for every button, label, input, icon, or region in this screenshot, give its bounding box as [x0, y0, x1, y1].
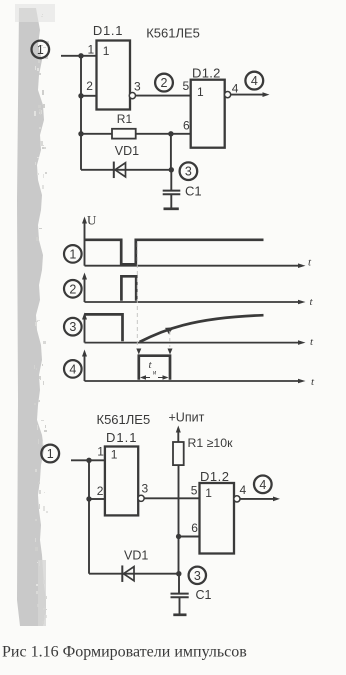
svg-text:1: 1: [197, 85, 204, 99]
svg-text:4: 4: [240, 483, 247, 497]
svg-text:3: 3: [194, 569, 201, 583]
svg-text:t: t: [311, 376, 315, 388]
svg-text:VD1: VD1: [124, 549, 148, 563]
svg-text:D1.1: D1.1: [93, 23, 123, 38]
svg-text:D1.2: D1.2: [200, 469, 229, 484]
svg-text:3: 3: [142, 482, 149, 496]
svg-text:D1.1: D1.1: [106, 430, 137, 445]
svg-text:Рис 1.16 Формирователи импульс: Рис 1.16 Формирователи импульсов: [2, 644, 247, 661]
svg-text:1: 1: [111, 447, 118, 461]
svg-text:6: 6: [183, 118, 190, 132]
svg-text:2: 2: [69, 282, 76, 296]
svg-text:4: 4: [259, 478, 266, 492]
svg-text:5: 5: [183, 79, 190, 93]
svg-text:t: t: [149, 359, 153, 371]
svg-text:2: 2: [161, 76, 168, 90]
svg-text:К561ЛЕ5: К561ЛЕ5: [97, 412, 151, 427]
svg-text:3: 3: [134, 80, 141, 94]
svg-text:C1: C1: [185, 184, 202, 199]
svg-text:5: 5: [191, 483, 198, 497]
svg-text:D1.2: D1.2: [192, 66, 221, 81]
svg-text:1: 1: [103, 44, 110, 58]
svg-text:1: 1: [97, 444, 104, 458]
svg-text:R1: R1: [117, 112, 133, 126]
svg-text:3: 3: [69, 320, 76, 334]
svg-text:2: 2: [86, 79, 93, 93]
svg-text:U: U: [87, 213, 97, 228]
svg-text:3: 3: [185, 165, 192, 179]
svg-text:1: 1: [69, 247, 76, 261]
svg-text:4: 4: [69, 362, 76, 376]
svg-text:1: 1: [205, 486, 212, 500]
svg-text:1: 1: [37, 43, 44, 57]
svg-text:C1: C1: [196, 588, 212, 602]
svg-text:t: t: [308, 257, 312, 269]
svg-text:4: 4: [232, 81, 239, 95]
svg-text:VD1: VD1: [115, 144, 139, 158]
svg-text:t: t: [310, 296, 314, 308]
svg-text:+Uпит: +Uпит: [169, 411, 205, 425]
svg-text:6: 6: [191, 521, 198, 535]
svg-text:R1 ≥10к: R1 ≥10к: [188, 436, 234, 450]
svg-text:4: 4: [251, 74, 258, 88]
svg-text:2: 2: [97, 484, 104, 498]
svg-text:1: 1: [47, 447, 54, 461]
svg-text:t: t: [310, 336, 314, 348]
svg-text:К561ЛЕ5: К561ЛЕ5: [146, 26, 200, 41]
svg-text:1: 1: [88, 42, 95, 56]
svg-text:и: и: [153, 371, 156, 377]
